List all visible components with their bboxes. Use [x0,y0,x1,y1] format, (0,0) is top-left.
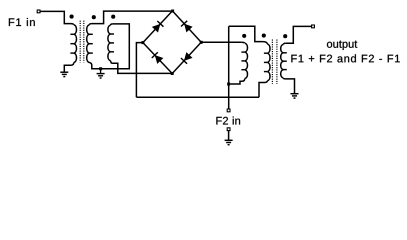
polarity dot winding B [92,15,96,19]
node bridge right vertex [200,41,203,44]
polarity dot winding C [111,15,115,19]
wire junction rail down to F2 terminal [228,26,230,109]
label output [327,41,357,50]
wire winding A bottom to ground [64,63,74,72]
transformer T2 winding E [263,42,267,44]
diode D2 upper-right [184,24,193,33]
transformer T2 core [272,40,277,85]
ground under winding A [60,72,68,76]
winding E cusp ticks [264,53,267,71]
node bridge left vertex [141,41,144,44]
transformer T1 primary winding A [71,24,74,25]
wire F2 lower terminal to ground [228,131,230,140]
wire winding B bottom to ground junction [89,63,99,69]
node F1 input terminal [37,10,40,13]
diode D4 lower-right [184,52,193,61]
polarity dot winding A [70,15,74,19]
winding B cusp ticks [89,34,92,53]
label F1 + F2 and F2 - F1 [291,54,399,62]
diode D3 lower-left [155,55,164,64]
node F2 upper terminal [227,109,230,112]
label F1 in [9,18,35,26]
label F2 in [216,117,240,125]
node bridge top vertex [171,10,174,13]
node F2 lower terminal [227,128,230,131]
wire ground junction to winding C top [101,24,130,69]
wire winding D bottom to junction [230,79,245,85]
bridge rectifier edges [143,11,201,74]
polarity dot winding D [242,34,246,38]
diode D1 upper-left [152,24,161,33]
transformer T2 winding D [241,42,245,43]
wire winding F bottom to ground [283,78,294,93]
wire winding F top to output terminal [286,26,312,43]
wire bridge left vertex down to F2 bus [136,43,142,98]
winding F cusp ticks [283,53,286,70]
winding D cusp ticks [241,52,244,70]
transformer T1 winding C [111,24,113,25]
winding A cusp ticks [70,34,73,53]
wire winding B top to bridge top vertex [92,11,171,24]
wire bridge right vertex to T2 winding D [202,41,241,43]
polarity dot winding F [283,34,287,38]
ground under F2 [225,140,233,144]
winding C cusp ticks [111,34,114,52]
node D bottom junction [227,83,230,86]
wire winding E bottom to F2 bus [259,81,267,97]
polarity dot winding E [262,34,266,38]
ground under winding F [291,94,299,98]
wire F2 bus [136,96,259,98]
node ground junction [99,67,102,70]
transformer T2 secondary winding F [283,43,285,44]
transformer T1 secondary winding B [89,24,92,25]
node bridge bottom vertex [171,72,174,75]
wire F1 terminal to T1 primary [40,11,71,23]
ground under junction [100,69,102,74]
node output terminal [312,25,315,28]
transformer T1 core [80,21,84,63]
wire junction rail up and over to winding E top [229,26,263,41]
wire winding C bottom to bridge bottom vertex [111,61,171,74]
